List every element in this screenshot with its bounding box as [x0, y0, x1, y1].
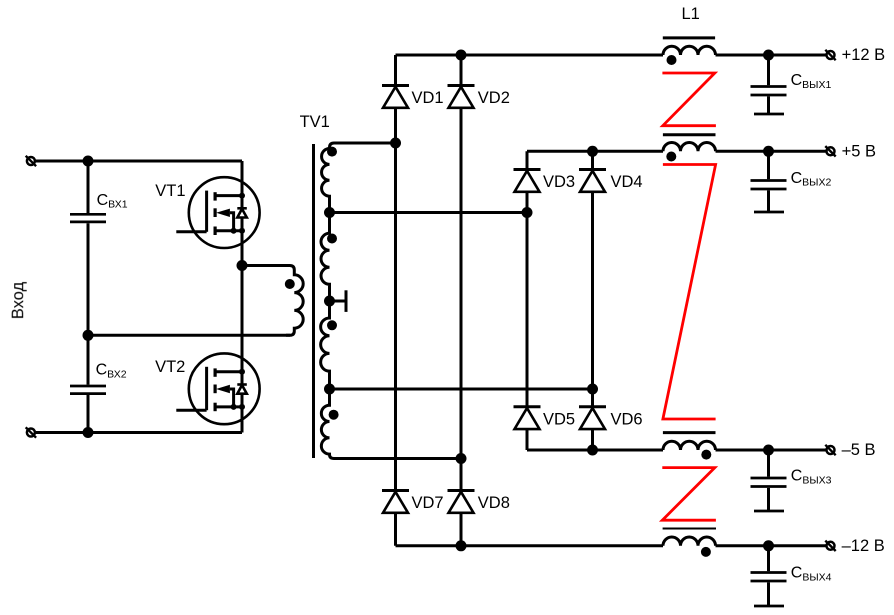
svg-text:VD2: VD2 — [478, 89, 510, 107]
coupling mark Z2 — [663, 165, 716, 420]
diode VD8 — [448, 491, 475, 513]
svg-text:L1: L1 — [682, 5, 700, 23]
svg-text:VT2: VT2 — [155, 358, 185, 376]
wire tap2 — [330, 388, 593, 391]
output terminal +12 — [825, 50, 835, 60]
transistor VT2 — [176, 353, 259, 424]
inductor L1 winding 4 — [663, 529, 716, 557]
diode VD4 — [579, 170, 606, 192]
wire rectifier column VD3 VD5 — [526, 151, 529, 450]
wire input minus rail — [36, 431, 242, 434]
junction tap1 spine — [324, 207, 335, 218]
junction input bottom — [83, 427, 94, 438]
input terminal bottom — [26, 427, 36, 437]
junction VD8 bottom rail — [456, 540, 467, 551]
inductor L1 winding 1 — [663, 38, 716, 65]
junction secondary top at VD1 — [390, 138, 401, 149]
wire rail -5 — [527, 449, 826, 452]
wire rail +5 — [527, 150, 826, 153]
wire input plus rail — [36, 160, 242, 163]
wire primary return to capacitor midpoint — [88, 334, 290, 337]
junction capacitor midpoint — [83, 330, 94, 341]
svg-text:+5 В: +5 В — [842, 143, 876, 161]
svg-text:–12 В: –12 В — [842, 537, 885, 555]
svg-text:CВЫХ1: CВЫХ1 — [791, 72, 832, 91]
svg-text:VD5: VD5 — [543, 410, 575, 428]
junction tap2 at VD6 — [587, 384, 598, 395]
transformer TV1 primary winding — [242, 266, 303, 336]
wire rectifier column VD2 VD8 — [460, 55, 463, 546]
output terminal -5 — [825, 445, 835, 455]
svg-text:TV1: TV1 — [300, 113, 330, 131]
diode VD7 — [382, 491, 409, 513]
transistor VT1 — [176, 177, 259, 248]
diode VD5 — [514, 407, 541, 429]
junction rail -5 cap — [763, 445, 774, 456]
svg-text:CВЫХ2: CВЫХ2 — [791, 170, 832, 189]
svg-text:CВЫХ4: CВЫХ4 — [791, 565, 832, 584]
svg-text:VD8: VD8 — [478, 494, 510, 512]
junction half-bridge midpoint — [237, 260, 248, 271]
input terminal top — [26, 156, 36, 166]
diode VD3 — [514, 170, 541, 192]
junction rail +12 cap — [763, 50, 774, 61]
capacitor CBX1 — [70, 161, 106, 335]
diode VD2 — [448, 86, 475, 108]
transformer TV1 secondary winding — [321, 143, 461, 459]
capacitor CBYX3 — [751, 450, 787, 511]
capacitor CBX2 — [70, 335, 106, 432]
junction VD2 top rail — [456, 50, 467, 61]
junction secondary bottom at VD8 — [456, 453, 467, 464]
svg-text:Вход: Вход — [9, 282, 27, 320]
capacitor CBYX4 — [751, 546, 787, 606]
junction tap1 at VD3 — [522, 207, 533, 218]
svg-text:VD3: VD3 — [543, 173, 575, 191]
junction rail -12 cap — [763, 540, 774, 551]
svg-text:–5 В: –5 В — [842, 441, 876, 459]
coupling mark Z3 — [662, 468, 716, 521]
junction VD4 top rail — [587, 146, 598, 157]
junction rail +5 cap — [763, 146, 774, 157]
transformer TV1 core — [312, 144, 315, 458]
svg-text:VD4: VD4 — [611, 173, 643, 191]
svg-text:+12 В: +12 В — [842, 46, 886, 64]
svg-text:VD1: VD1 — [412, 89, 444, 107]
diode VD1 — [382, 86, 409, 108]
junction input top — [83, 156, 94, 167]
wire rectifier column VD1 VD7 — [394, 55, 397, 546]
svg-text:CВХ2: CВХ2 — [96, 362, 127, 381]
wire rail -12 — [396, 544, 826, 547]
svg-text:CВЫХ3: CВЫХ3 — [791, 468, 832, 487]
wire rectifier column VD4 VD6 — [591, 151, 594, 450]
wire rail +12 — [396, 54, 826, 57]
svg-text:CВХ1: CВХ1 — [97, 192, 128, 211]
inductor L1 winding 3 — [663, 433, 716, 460]
diode VD6 — [579, 407, 606, 429]
wire half-bridge leg — [241, 161, 244, 433]
capacitor CBYX2 — [751, 151, 787, 212]
wire tap1 — [330, 211, 528, 214]
output terminal +5 — [825, 146, 835, 156]
junction center tap spine — [324, 296, 335, 307]
capacitor CBYX1 — [751, 55, 787, 114]
junction tap2 spine — [324, 384, 335, 395]
svg-text:VT1: VT1 — [155, 182, 185, 200]
svg-text:VD6: VD6 — [611, 410, 643, 428]
svg-text:VD7: VD7 — [412, 494, 444, 512]
wire center tap stub — [330, 290, 347, 312]
coupling mark Z1 — [662, 73, 716, 126]
junction VD6 bottom rail — [587, 445, 598, 456]
output terminal -12 — [825, 541, 835, 551]
inductor L1 winding 2 — [663, 135, 716, 162]
